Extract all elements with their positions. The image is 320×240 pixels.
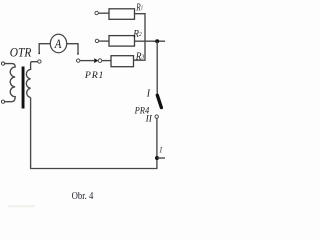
transformer core (22, 67, 25, 109)
socket circle right (77, 59, 80, 62)
junction dot top (155, 39, 159, 43)
resistor R2 row socket (95, 39, 98, 42)
wire socket to R3 (102, 60, 111, 62)
svg-text:A: A (54, 36, 61, 51)
svg-text:Obr. 4: Obr. 4 (72, 190, 94, 202)
transformer U1 primary winding (4, 64, 15, 102)
wire ammeter right to plug stub (67, 44, 78, 54)
terminal circle primary bottom (1, 100, 4, 103)
bus wire down to switch (156, 41, 158, 94)
wire II contact down (156, 118, 158, 168)
resistor R1 (109, 9, 135, 19)
wire secondary bottom down (30, 98, 32, 169)
plug tip left (38, 53, 40, 55)
switch blade PR4 (157, 95, 161, 107)
svg-text:PR1: PR1 (84, 70, 104, 81)
wire stub to right edge (157, 157, 165, 159)
junction dot bottom (155, 156, 159, 160)
socket circle left (38, 60, 41, 63)
scan smudge artifact (8, 205, 35, 208)
resistor R3 (111, 56, 134, 67)
resistor R1 row socket (95, 11, 98, 14)
svg-text:I: I (159, 146, 163, 155)
wire R2 right to edge (135, 40, 166, 42)
transformer secondary winding (26, 62, 38, 98)
wire R1 right to bus (135, 14, 146, 42)
svg-text:OTR: OTR (10, 44, 32, 59)
resistor R2 (109, 36, 135, 47)
socket circle R3 row (98, 59, 102, 63)
plug tip right (77, 53, 79, 55)
wire socket to R1 (98, 12, 109, 14)
wire ammeter left to plug stub (39, 44, 50, 53)
wire socket to R2 (99, 40, 109, 42)
svg-text:II: II (145, 115, 153, 125)
terminal circle primary top (1, 62, 4, 65)
wire socket to plug arrow PR1 (80, 60, 94, 62)
plug arrow PR1 (94, 58, 98, 63)
wire R3 right up to node (134, 41, 146, 60)
bottom wire (30, 168, 157, 170)
ammeter U2 (50, 34, 66, 52)
svg-text:I: I (146, 88, 151, 99)
contact circle II (155, 115, 158, 118)
